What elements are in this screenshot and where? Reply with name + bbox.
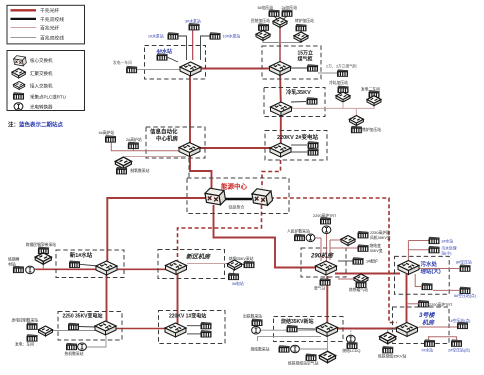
diamond lengzha jiayazhan: [336, 92, 350, 102]
svg-text:炼铁烧结35KV站: 炼铁烧结35KV站: [378, 354, 406, 359]
PLC 220kv2 a: [308, 142, 319, 149]
wire pink lengzha switch right run: [291, 107, 375, 109]
legend PLC/RTU icon: [13, 93, 24, 100]
converter shaojie LCDQ: [346, 335, 355, 343]
dashed box new 1# water station: [56, 250, 124, 278]
PLC 2200 TRT (south): [418, 300, 429, 307]
wire black switch to plcs: [291, 144, 307, 146]
PLC 7# shuizhan: [424, 340, 435, 347]
PLC 2250 gaolu: [358, 231, 369, 238]
svg-text:发电：车间: 发电：车间: [15, 341, 34, 346]
wire red xinqu down to 220kv1: [177, 274, 179, 324]
svg-text:烧结LCDQ: 烧结LCDQ: [342, 348, 360, 353]
core switch 2: [252, 189, 273, 206]
legend access switch icon: [14, 82, 25, 90]
switch 4# water station: [180, 62, 201, 76]
wire black plc to switch inside box: [167, 57, 178, 62]
wire thinred to liantie nuanqi diamond: [338, 278, 354, 280]
PLC liantie shaojie 35kv: [382, 346, 393, 353]
svg-text:光电转换器: 光电转换器: [30, 104, 53, 111]
PLC gas tank: [307, 65, 318, 72]
wire darkred diamond down to main line: [42, 263, 44, 270]
PLC 8# kongyazhan: [460, 265, 471, 272]
converter 2200 TRT: [322, 226, 331, 234]
PLC 220kv2 b: [308, 149, 319, 156]
svg-text:暖气站: 暖气站: [314, 286, 326, 291]
PLC reji: [66, 343, 77, 350]
PLC jiaolu: [351, 126, 362, 133]
legend box line-types: [7, 5, 85, 44]
dashed box 150k gas tank: [262, 46, 321, 79]
dashed box energy center: [187, 178, 289, 214]
PLC shaojie shucai: [279, 346, 290, 353]
wire black plc to switch: [80, 264, 98, 266]
PLC fadian kongzhi: [27, 323, 38, 330]
switch shaojie 35KV: [317, 323, 338, 337]
svg-text:2200高炉TRT: 2200高炉TRT: [429, 302, 453, 307]
svg-text:站(小): 站(小): [441, 250, 452, 255]
PLC inside shaojie: [287, 325, 298, 332]
svg-text:220KV 1#变电站: 220KV 1#变电站: [169, 313, 206, 320]
PLC renminlu: [294, 234, 305, 241]
svg-text:转炉加压站: 转炉加压站: [295, 18, 314, 23]
svg-text:2250高炉鼓: 2250高炉鼓: [370, 230, 390, 235]
PLC 2200 TRT: [320, 217, 331, 224]
svg-text:出铁数采站: 出铁数采站: [243, 314, 262, 319]
legend pink 100M fiber sample: [11, 27, 37, 29]
svg-text:风机35KV变: 风机35KV变: [370, 235, 391, 240]
svg-text:烧结变: 烧结变: [370, 243, 382, 248]
wire thinred 3haolou right plc: [419, 326, 459, 328]
PLC 1# kongyazhan: [457, 322, 468, 329]
svg-text:能源中心: 能源中心: [221, 182, 248, 191]
converter shaojie shucai: [291, 345, 300, 353]
svg-text:污水处理: 污水处理: [441, 246, 456, 251]
wire red 290room to wushui station: [335, 273, 400, 275]
wire black switch to plc: [291, 101, 306, 104]
diamond liantie shaojie 35kv: [380, 332, 396, 344]
dashed box 3haolou room: [393, 307, 450, 344]
wire black elbow left plc to switch: [178, 36, 187, 60]
converter liangang bangcai: [26, 266, 35, 274]
wire black-dashed info-center box to energy-center box: [188, 158, 190, 178]
svg-text:发电控制数采站: 发电控制数采站: [12, 318, 39, 323]
svg-text:新区机房: 新区机房: [186, 253, 211, 261]
switch 220KV 2# substation: [270, 143, 291, 157]
wire black plc stub: [262, 30, 264, 32]
wire pink zhiyang diamond run: [125, 156, 187, 158]
legend black gigabit TP sample: [11, 18, 37, 20]
PLC 1# peilu: [353, 258, 364, 265]
wire red-dashed 220kv2 box to core2: [262, 160, 281, 188]
wire black switch to plcs 220kv1: [187, 325, 201, 327]
PLC zhiyang: [116, 167, 127, 174]
PLC lengzha: [307, 98, 318, 105]
dashed box lengzha 35KV: [264, 88, 325, 117]
diamond liantie shaojie kongqi: [319, 351, 335, 363]
diamond liangang minsteel: [35, 253, 51, 265]
PLC 6# kongyazhan: [460, 287, 471, 294]
svg-text:3#水泵站: 3#水泵站: [185, 18, 201, 23]
svg-text:发电一车间: 发电一车间: [113, 60, 132, 65]
PLC liangang bangcai: [13, 266, 24, 273]
wire gray reji conv elbow to switch: [87, 336, 107, 347]
wire pink xinqu to liangang35kv diamond: [187, 263, 228, 265]
svg-text:1#配炉: 1#配炉: [366, 259, 378, 264]
wire gray fadiankongzhi diamond to switch: [53, 330, 95, 332]
PLC below wushui: [422, 283, 433, 290]
dashed box 290 room: [301, 248, 346, 277]
svg-text:百兆双绞线: 百兆双绞线: [40, 34, 64, 41]
svg-text:8#空压站: 8#空压站: [456, 260, 472, 265]
PLC 1# pump: [168, 33, 179, 40]
svg-text:冷轧35KV: 冷轧35KV: [286, 88, 311, 96]
wire red xin1shuizhan down to 2250: [106, 274, 108, 323]
dashed box xinqu room: [158, 250, 225, 279]
wire red pump-diamond down to meiqigui switch: [279, 27, 281, 63]
wire gray chutie conv to shaojie switch: [261, 329, 317, 331]
switch wushui station: [398, 261, 419, 275]
wire thinred trt plc stub: [407, 303, 420, 305]
wire red liangang conv to xinqu room: [35, 268, 168, 270]
switch 150k gas tank: [270, 62, 291, 76]
PLC 4# gaolu: [105, 136, 116, 143]
svg-text:220KV 2#变电站: 220KV 2#变电站: [277, 133, 318, 141]
PLC 2/3wan gas tank: [337, 70, 348, 77]
wire gray dotted to LCDQ conv: [350, 331, 352, 336]
svg-text:热机数采站: 热机数采站: [65, 351, 84, 356]
svg-text:3#水站: 3#水站: [441, 238, 453, 243]
dashed box info automation center: [146, 127, 205, 158]
svg-text:烧结数采站: 烧结数采站: [251, 347, 270, 352]
svg-text:煤气柜: 煤气柜: [298, 56, 313, 63]
svg-text:信息自动化: 信息自动化: [150, 128, 178, 136]
PLC liantie nuanqi: [356, 281, 367, 288]
wire thinred wushui up to plcs: [407, 241, 409, 261]
svg-text:2200高炉TRT: 2200高炉TRT: [313, 213, 337, 218]
legend core switch icon: [14, 56, 27, 66]
PLC liantie shaojie kongqi: [306, 354, 317, 361]
wire thinred renminlu conv elbow: [315, 238, 321, 261]
PLC shaojie LCDQ: [347, 342, 358, 349]
PLC inside 2250: [68, 323, 79, 330]
switch new 1# water station: [96, 261, 117, 275]
svg-text:焦炉加压站: 焦炉加压站: [362, 127, 381, 132]
legend red gigabit fiber sample: [11, 9, 37, 11]
PLC shaojiebian: [358, 245, 369, 252]
svg-text:炼铁暖气站: 炼铁暖气站: [349, 287, 368, 292]
svg-text:2#高炉站: 2#高炉站: [126, 137, 142, 142]
svg-text:新1#水站: 新1#水站: [70, 251, 93, 259]
svg-text:10#水泵站: 10#水泵站: [223, 33, 241, 38]
diamond jiaolu: [349, 116, 363, 126]
switch 220KV 1# substation: [165, 323, 186, 337]
svg-text:接入交换机: 接入交换机: [30, 83, 53, 90]
svg-text:炼铁烧结站空气站: 炼铁烧结站空气站: [288, 360, 319, 365]
svg-text:链路聚合: 链路聚合: [229, 204, 245, 210]
PLC 10# pump: [210, 33, 221, 40]
svg-text:千兆双绞线: 千兆双绞线: [40, 16, 64, 23]
wire black elbow right plc to switch: [201, 36, 211, 60]
diamond liantie nuanqi: [354, 274, 368, 284]
PLC 3# dianzhan: [228, 273, 239, 280]
dashed box 2250 35KV substation: [58, 312, 122, 341]
dashed box wushui station: [395, 256, 450, 294]
svg-text:2#加压站: 2#加压站: [282, 5, 298, 10]
PLC 2# gaolu: [128, 142, 139, 149]
switch lengzha 35KV: [271, 102, 292, 116]
PLC fadian chejian: [27, 335, 38, 342]
wire gray shaojie conv run: [300, 348, 328, 350]
diamond liangang 35kv: [228, 260, 242, 270]
switch 290 room: [316, 261, 337, 275]
svg-text:中心机房: 中心机房: [156, 135, 179, 143]
wire gray fadian plc to switch: [137, 69, 181, 71]
dashed box shaojie 35KV new station: [274, 317, 344, 342]
wire red top plc down to switch: [192, 30, 194, 61]
wire red info-center down to core switch 1: [190, 156, 212, 189]
converter renminlu: [306, 234, 315, 242]
wire gray diamond2-diamond3 connector: [263, 40, 301, 43]
svg-text:炼钢民钢窄带采站: 炼钢民钢窄带采站: [26, 242, 57, 247]
switch info automation center: [179, 143, 200, 157]
diamond fadian kongzhi: [39, 326, 53, 336]
svg-text:35KV变: 35KV变: [370, 248, 383, 253]
svg-text:炼钢棒: 炼钢棒: [8, 257, 20, 262]
wire black switch to plc inside gas tank box: [290, 67, 307, 69]
PLC liangang minsteel: [38, 247, 49, 254]
core switch 1: [205, 188, 226, 205]
wire red wushui down to 3haolou: [406, 274, 408, 324]
svg-text:1#水泵站: 1#水泵站: [148, 33, 164, 38]
svg-text:注：蓝色表示二期站点: 注：蓝色表示二期站点: [8, 121, 64, 129]
PLC zhuanlu jiayazhan: [296, 24, 307, 31]
wire black plc to switch shaojie: [298, 328, 317, 330]
wire gray to 2/3wan plc: [318, 72, 338, 74]
switch 2250 35KV substation: [95, 321, 116, 335]
PLC 5# jiayazhan: [269, 10, 280, 17]
svg-text:民统加压站: 民统加压站: [251, 18, 270, 23]
wire thinred wushui right to 8kong plc: [419, 268, 459, 270]
wire red 4#shuizhan down to info-center switch: [189, 69, 191, 150]
svg-text:人民炉数采站: 人民炉数采站: [287, 228, 310, 233]
wire red core1 left to xin1shuizhan: [107, 198, 206, 262]
converter chutie: [252, 326, 261, 334]
diamond zhiyang: [115, 157, 131, 169]
wire gray 3haolou diamond elbow: [388, 330, 398, 335]
legend gray 100M TP sample: [11, 37, 37, 39]
svg-text:核心交换机: 核心交换机: [30, 57, 53, 64]
svg-text:采集点PLC或RTU: 采集点PLC或RTU: [30, 94, 66, 101]
dashed box 220KV 2# substation: [265, 131, 327, 161]
svg-text:4#高炉站: 4#高炉站: [99, 130, 115, 135]
legend aggregation switch icon: [12, 69, 25, 79]
diamond switch mintong: [256, 31, 270, 41]
svg-text:烧结35KV新站: 烧结35KV新站: [281, 318, 314, 325]
PLC 2# jiayazhan: [282, 10, 293, 17]
svg-text:6#空压站(点): 6#空压站(点): [454, 293, 477, 298]
PLC minTong jiayazhan: [258, 24, 269, 31]
wire darkred plc elbow to info switch: [111, 142, 179, 151]
wire thinred trt conv to 290 switch: [326, 234, 328, 262]
svg-text:汇聚交换机: 汇聚交换机: [30, 70, 53, 77]
svg-text:7#水站: 7#水站: [421, 348, 433, 353]
wire red-dashed core2 right-down to wushui/3haolou: [270, 198, 397, 323]
wire red meiqigui down to lengzha35kv: [279, 69, 282, 104]
wire red 2250 to 220kv1: [115, 328, 166, 330]
diamond 2250 gaolu gufengji: [341, 236, 355, 246]
legend box device-types: [7, 51, 85, 111]
wire red-dashed core2 down-left to xinqu switch: [178, 205, 262, 261]
wire black thick link aggregation: [224, 198, 252, 201]
svg-text:2万、3万立煤气柜: 2万、3万立煤气柜: [326, 64, 357, 69]
wire thinred wushui down plcs: [415, 274, 421, 287]
diamond switch pump cluster: [273, 18, 287, 28]
PLC 220kv1 a: [201, 322, 212, 329]
wire red 220kv2 switch to info-center switch: [201, 147, 273, 149]
PLC fadian er chejian: [369, 91, 380, 98]
svg-text:百兆光纤: 百兆光纤: [40, 24, 59, 31]
switch 3haolou room: [397, 323, 418, 337]
PLC 2# kongyazhan: [451, 340, 462, 347]
legend photoelectric converter icon: [14, 103, 23, 111]
PLC fadian yi chejian: [126, 66, 137, 73]
PLC liangang 35kv: [244, 261, 255, 268]
svg-text:机房: 机房: [422, 319, 435, 327]
svg-text:千兆光纤: 千兆光纤: [40, 7, 59, 14]
svg-text:材站: 材站: [8, 262, 16, 267]
svg-text:290机房: 290机房: [310, 251, 334, 259]
wire red core1 down-right to 290 room: [214, 205, 318, 268]
wire red lengzha35kv down to 220kv2: [280, 110, 282, 144]
svg-text:2250 35KV变电站: 2250 35KV变电站: [63, 313, 103, 320]
PLC lengzha jiayazhan: [338, 86, 349, 93]
dashed box 4# water station: [145, 46, 206, 80]
svg-text:2#空压站(点): 2#空压站(点): [448, 348, 471, 353]
wire red 4#shuizhan to meiqigui: [190, 68, 280, 70]
svg-text:3#电站: 3#电站: [232, 281, 244, 286]
svg-text:污水处: 污水处: [421, 260, 438, 268]
PLC 3# shuizhan: [429, 237, 440, 244]
svg-text:3号楼: 3号楼: [419, 311, 435, 319]
wire black plc stubs to diamond1: [274, 16, 277, 19]
wire thinred diamonds runs right of 290: [329, 240, 331, 260]
svg-text:5#加压站: 5#加压站: [258, 5, 274, 10]
switch xinqu room: [166, 261, 187, 275]
PLC chutie: [252, 319, 263, 326]
svg-text:制氧数采站: 制氧数采站: [130, 168, 149, 173]
wire black plc to switch inside 2250: [79, 326, 95, 329]
PLC 3# pump: [189, 23, 200, 30]
PLC wushui small: [429, 246, 440, 253]
diamond switch zhuanlu: [294, 32, 308, 42]
wire black 290 switch to 1#peilu plc: [338, 260, 353, 262]
wire gray run left of shaojie box: [258, 335, 322, 337]
wire red 290room down to shaojie35kv: [326, 276, 328, 324]
dashed box 220KV 1# substation: [159, 311, 226, 344]
PLC 220kv1 b: [201, 330, 212, 337]
PLC 4# water station: [157, 54, 168, 61]
PLC below 290: [320, 279, 331, 286]
PLC new 1# water: [69, 261, 80, 268]
wire thinred 3haolou down plcs: [428, 336, 430, 340]
converter reji: [78, 343, 87, 351]
svg-text:15万立: 15万立: [298, 50, 314, 57]
wire red shaojie35kv to 3haolou: [336, 328, 398, 330]
svg-text:冷轧加压站: 冷轧加压站: [329, 80, 348, 85]
diamond fadian er chejian: [367, 96, 381, 106]
